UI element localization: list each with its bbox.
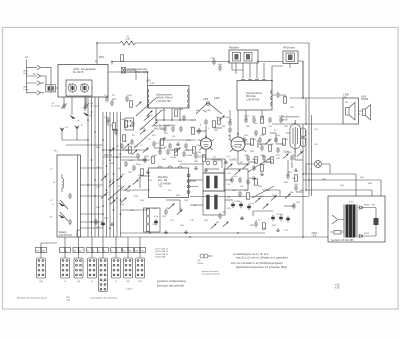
- svg-text:C514: C514: [272, 195, 278, 197]
- svg-text:und angaben der schaltung: und angaben der schaltung: [90, 296, 117, 299]
- svg-text:L204 C204 1n: L204 C204 1n: [155, 251, 169, 253]
- svg-text:C422: C422: [184, 150, 190, 152]
- svg-text:C1030: C1030: [234, 201, 241, 203]
- svg-text:4 A: 4 A: [313, 235, 317, 238]
- svg-text:C560: C560: [152, 208, 158, 210]
- svg-text:UCC85: UCC85: [198, 156, 207, 159]
- svg-text:statt 22 µ (2 mal mit 1nFaden: statt 22 µ (2 mal mit 1nFaden an 1 gewic…: [236, 256, 288, 260]
- svg-text:b): b): [180, 208, 182, 210]
- svg-text:C416a: C416a: [170, 157, 177, 159]
- svg-text:EM: EM: [196, 110, 199, 112]
- svg-text:81..451p: 81..451p: [52, 106, 61, 108]
- svg-text:M: M: [74, 250, 76, 252]
- svg-text:Tr20: Tr20: [349, 201, 354, 204]
- svg-text:C447: C447: [287, 152, 293, 154]
- svg-text:1,26 447/05: 1,26 447/05: [246, 98, 260, 101]
- svg-text:e.05: e.05: [335, 288, 340, 290]
- svg-text:C402: C402: [127, 95, 133, 97]
- svg-text:1,16 US/WE-NQW: 1,16 US/WE-NQW: [127, 71, 148, 74]
- svg-text:Tastatur: Tastatur: [59, 231, 67, 234]
- svg-text:p.32: p.32: [335, 284, 340, 286]
- svg-text:C414: C414: [152, 155, 158, 157]
- svg-text:81..451p: 81..451p: [91, 106, 100, 108]
- svg-text:C437: C437: [244, 116, 250, 118]
- svg-text:R60a: R60a: [252, 159, 258, 161]
- svg-text:C506: C506: [248, 178, 254, 180]
- svg-text:deutsch für ansch.: deutsch für ansch.: [202, 270, 219, 273]
- svg-text:gleichlaufend gemessen mit ein: gleichlaufend gemessen mit einspulen 1B(…: [236, 265, 287, 269]
- svg-text:1,2k: 1,2k: [125, 38, 130, 41]
- svg-text:GD: GD: [197, 260, 201, 262]
- svg-text:druckplatte gemess.: druckplatte gemess.: [202, 273, 221, 276]
- svg-text:1M: 1M: [222, 126, 225, 128]
- svg-text:a) nachbelegen mit 4,7 nF a) 2: a) nachbelegen mit 4,7 nF a) 2: [233, 252, 269, 256]
- svg-text:a): a): [230, 119, 232, 121]
- svg-text:C418: C418: [128, 160, 134, 162]
- svg-text:R62a: R62a: [268, 159, 274, 161]
- svg-text:UC: UC: [68, 84, 72, 86]
- svg-text:C441: C441: [279, 116, 285, 118]
- svg-text:L206 C206 1n: L206 C206 1n: [155, 254, 169, 256]
- svg-text:L208 C208: L208 C208: [155, 257, 166, 259]
- svg-text:C562: C562: [152, 224, 158, 226]
- svg-text:C433: C433: [210, 58, 216, 60]
- svg-text:C405: C405: [120, 119, 126, 121]
- svg-text:1,26 445 760: 1,26 445 760: [156, 100, 171, 103]
- svg-text:UCH81: UCH81: [229, 159, 238, 162]
- svg-text:LM: LM: [77, 281, 80, 283]
- svg-text:C255w: C255w: [197, 263, 204, 265]
- svg-text:C504: C504: [232, 176, 238, 178]
- svg-text:und till: und till: [281, 118, 288, 121]
- svg-text:L 2021 L: L 2021 L: [126, 288, 135, 290]
- svg-text:B: B: [90, 114, 92, 118]
- svg-text:Kurz: Kurz: [24, 72, 29, 75]
- svg-text:E250: E250: [364, 205, 370, 207]
- svg-text:a-b) mit 2-Schalter in al (5x9: a-b) mit 2-Schalter in al (5x91B Eingang…: [231, 261, 283, 265]
- svg-text:[taste ganz nach gedruckt]: [taste ganz nach gedruckt]: [157, 284, 184, 287]
- svg-text:C418a: C418a: [186, 155, 193, 157]
- svg-text:220V~: 220V~: [312, 232, 320, 235]
- svg-text:C415: C415: [186, 140, 192, 142]
- svg-text:L202 C202 1n: L202 C202 1n: [155, 249, 169, 251]
- svg-text:50+50µ: 50+50µ: [276, 214, 284, 216]
- svg-text:C420: C420: [144, 156, 150, 158]
- svg-text:gezeichnet: Schalterstellung: gezeichnet: Schalterstellung: [157, 280, 186, 283]
- svg-text:LPh: LPh: [126, 281, 130, 283]
- svg-text:Ratiofilter: Ratiofilter: [229, 47, 239, 50]
- svg-text:FL 440 B: FL 440 B: [73, 70, 84, 74]
- svg-text:A: A: [78, 119, 80, 123]
- svg-text:Netzteil 1 26 301 365: Netzteil 1 26 301 365: [331, 239, 354, 242]
- svg-text:M: M: [80, 250, 82, 252]
- svg-text:C461: C461: [206, 110, 212, 112]
- svg-text:1 26 375 162: 1 26 375 162: [59, 235, 73, 237]
- svg-text:1,26 445/86: 1,26 445/86: [158, 182, 171, 185]
- svg-text:C413: C413: [140, 128, 146, 130]
- svg-text:Lang: Lang: [24, 89, 30, 91]
- svg-text:C460: C460: [214, 98, 220, 100]
- svg-text:L460: L460: [203, 99, 209, 101]
- svg-text:C408: C408: [178, 109, 184, 111]
- svg-text:HF-Drossel: HF-Drossel: [283, 46, 296, 49]
- svg-text:C411: C411: [148, 115, 154, 117]
- svg-text:E250: E250: [364, 233, 370, 235]
- svg-text:MP1: MP1: [99, 56, 105, 59]
- svg-text:Mit Übersicht: gedruckte print: Mit Übersicht: gedruckte printe: [17, 296, 47, 299]
- svg-text:R510: R510: [260, 164, 266, 166]
- svg-text:304/86: 304/86: [361, 99, 369, 101]
- svg-text:a): a): [127, 36, 129, 38]
- svg-text:C412: C412: [160, 129, 166, 131]
- svg-text:C430: C430: [196, 152, 202, 154]
